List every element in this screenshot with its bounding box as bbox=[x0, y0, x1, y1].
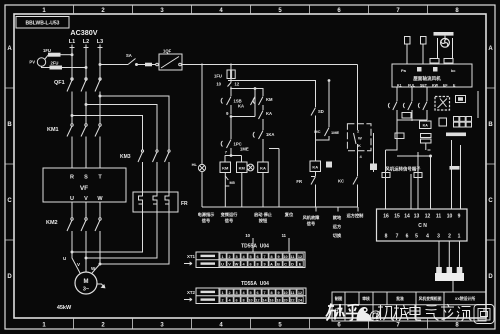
bottom margin zone ticks bbox=[74, 318, 428, 329]
watermark pseudo char 电 bbox=[410, 305, 421, 321]
terminal link plate 2 bbox=[450, 166, 460, 170]
bottom zone numbers bbox=[42, 323, 459, 329]
svg-text:10: 10 bbox=[216, 82, 221, 87]
title block texts bbox=[335, 296, 476, 313]
left zone letters bbox=[7, 46, 12, 280]
coil KA2 bbox=[310, 161, 321, 172]
svg-text:W: W bbox=[97, 196, 103, 202]
svg-text:8: 8 bbox=[242, 299, 244, 303]
svg-text:6: 6 bbox=[249, 263, 251, 267]
svg-text:13: 13 bbox=[414, 214, 420, 220]
wire phase L3 drop bbox=[99, 45, 101, 82]
svg-text:TD55A U04: TD55A U04 bbox=[241, 281, 269, 287]
svg-text:3: 3 bbox=[437, 234, 440, 240]
wire sensor drop 3 bbox=[426, 87, 428, 101]
svg-text:S: S bbox=[84, 175, 88, 181]
fan junction box bbox=[392, 64, 472, 87]
coil KA bbox=[258, 162, 269, 207]
svg-text:切换: 切换 bbox=[333, 232, 342, 239]
contact 1SD bbox=[311, 108, 324, 162]
contact K2 bbox=[403, 102, 412, 121]
svg-text:7: 7 bbox=[396, 234, 399, 240]
svg-text:KM2: KM2 bbox=[46, 220, 58, 226]
svg-text:1: 1 bbox=[42, 323, 46, 329]
thermal overload FR bbox=[133, 192, 188, 212]
svg-text:A: A bbox=[7, 46, 12, 52]
svg-text:1: 1 bbox=[221, 255, 223, 259]
label XT1 bbox=[184, 254, 196, 265]
contactor KM3 bbox=[120, 150, 170, 192]
svg-text:4: 4 bbox=[219, 323, 223, 329]
svg-text:KA: KA bbox=[423, 124, 429, 128]
svg-text:信号: 信号 bbox=[202, 217, 210, 224]
terminal tag 10 bbox=[421, 134, 432, 138]
svg-text:2: 2 bbox=[101, 8, 105, 14]
fan box internals bbox=[397, 67, 456, 88]
svg-text:1: 1 bbox=[221, 291, 223, 295]
svg-text:KM: KM bbox=[222, 166, 229, 171]
svg-text:XT1: XT1 bbox=[187, 254, 196, 259]
svg-text:15: 15 bbox=[394, 214, 400, 220]
svg-text:E: E bbox=[299, 263, 302, 267]
breaker 1QF box bbox=[156, 49, 182, 71]
svg-text:7: 7 bbox=[263, 255, 265, 259]
right margin zone ticks bbox=[486, 88, 495, 240]
svg-text:W: W bbox=[358, 136, 362, 141]
svg-text:KC: KC bbox=[338, 179, 344, 184]
svg-text:10: 10 bbox=[447, 214, 453, 220]
svg-text:MC: MC bbox=[314, 129, 320, 134]
wire tag B bbox=[414, 173, 422, 178]
fuse 1FU control bbox=[214, 65, 235, 81]
svg-text:B: B bbox=[7, 122, 12, 128]
svg-text:D: D bbox=[7, 274, 12, 280]
wire bypass tap L1 bbox=[71, 115, 143, 151]
svg-text:V: V bbox=[84, 196, 88, 202]
svg-text:审核: 审核 bbox=[362, 296, 370, 301]
svg-text:8: 8 bbox=[270, 291, 272, 295]
svg-text:QF1: QF1 bbox=[54, 80, 65, 86]
svg-text:5: 5 bbox=[278, 323, 282, 329]
contact KMC bbox=[338, 151, 358, 207]
svg-text:3: 3 bbox=[160, 323, 164, 329]
svg-text:变频运行: 变频运行 bbox=[221, 211, 239, 218]
VFD U1 box bbox=[43, 168, 126, 202]
svg-text:4: 4 bbox=[242, 291, 245, 295]
coil KA3 bbox=[420, 121, 432, 129]
svg-text:就地: 就地 bbox=[333, 214, 342, 221]
XT1 cells top bbox=[220, 253, 303, 266]
svg-text:11: 11 bbox=[282, 233, 287, 238]
svg-text:2: 2 bbox=[228, 255, 230, 259]
busbar link plate bbox=[446, 133, 466, 137]
wire tags on phases bbox=[70, 47, 103, 49]
svg-text:2: 2 bbox=[357, 129, 360, 134]
svg-text:4: 4 bbox=[219, 8, 223, 14]
svg-text:XT2: XT2 bbox=[187, 290, 196, 295]
svg-text:W: W bbox=[91, 266, 96, 271]
svg-text:kc: kc bbox=[451, 68, 456, 73]
svg-text:批准: 批准 bbox=[396, 296, 404, 301]
terminal tag 11 bbox=[421, 139, 432, 143]
svg-text:风机变频柜图: 风机变频柜图 bbox=[419, 296, 442, 301]
terminal block CN bbox=[377, 209, 468, 241]
svg-text:10: 10 bbox=[248, 299, 252, 303]
svg-text:C: C bbox=[7, 198, 12, 204]
svg-text:4: 4 bbox=[360, 154, 363, 159]
plug connector dashed bbox=[435, 97, 450, 111]
svg-text:C: C bbox=[488, 198, 493, 204]
wire busbar to title block bbox=[452, 281, 454, 292]
wire bypass to motor bbox=[71, 212, 169, 265]
svg-text:L3: L3 bbox=[97, 39, 103, 45]
svg-text:U: U bbox=[221, 263, 224, 267]
wire number 11 to strip bbox=[282, 233, 289, 252]
svg-text:1QF: 1QF bbox=[163, 49, 172, 54]
svg-text:Pa: Pa bbox=[401, 68, 407, 73]
svg-text:1: 1 bbox=[42, 8, 46, 14]
lamp 2HL bbox=[247, 164, 254, 171]
svg-text:信号: 信号 bbox=[307, 220, 315, 227]
svg-text:18: 18 bbox=[276, 299, 280, 303]
svg-text:9: 9 bbox=[458, 214, 461, 220]
wire bypass tap L2 bbox=[85, 104, 157, 151]
svg-text:V: V bbox=[228, 263, 231, 267]
svg-text:1KA: 1KA bbox=[266, 132, 274, 137]
svg-text:复位: 复位 bbox=[284, 211, 294, 218]
wire number 10 to strip bbox=[245, 233, 253, 252]
svg-text:11: 11 bbox=[290, 255, 294, 259]
svg-text:启动 停止: 启动 停止 bbox=[254, 211, 273, 218]
svg-text:FR: FR bbox=[181, 201, 188, 207]
stop button 10 bbox=[216, 81, 234, 89]
svg-text:FR: FR bbox=[296, 179, 302, 184]
wire CN output 3 bbox=[457, 241, 463, 273]
svg-text:远方控制: 远方控制 bbox=[347, 212, 364, 219]
svg-text:11: 11 bbox=[290, 291, 294, 295]
wire right feed drop bbox=[357, 65, 359, 128]
top margin zone ticks bbox=[74, 5, 428, 14]
svg-text:电源指示: 电源指示 bbox=[198, 211, 216, 218]
svg-text:16: 16 bbox=[383, 214, 389, 220]
svg-text:KM: KM bbox=[239, 166, 246, 171]
svg-text:B: B bbox=[488, 122, 493, 128]
relay tag box B bbox=[395, 133, 404, 139]
coil KA4 bbox=[439, 118, 447, 126]
svg-text:1: 1 bbox=[458, 234, 461, 240]
relay label box bbox=[456, 96, 466, 103]
svg-text:B: B bbox=[277, 263, 280, 267]
svg-text:6: 6 bbox=[256, 255, 258, 259]
wire cluster links bbox=[386, 110, 432, 157]
terminal mark bbox=[326, 162, 332, 168]
svg-text:12: 12 bbox=[298, 255, 302, 259]
top zone numbers bbox=[42, 8, 459, 14]
svg-text:6: 6 bbox=[406, 234, 409, 240]
svg-text:8: 8 bbox=[256, 263, 258, 267]
svg-text:L2: L2 bbox=[83, 39, 89, 45]
svg-text:TD55A U04: TD55A U04 bbox=[241, 244, 269, 250]
svg-text:C: C bbox=[284, 263, 287, 267]
wire ladder main drop bbox=[230, 64, 232, 66]
watermark boxed char 圈 bbox=[474, 305, 494, 324]
svg-text:L1: L1 bbox=[69, 39, 75, 45]
motor ground arrow bbox=[97, 284, 105, 288]
contact K3 bbox=[418, 102, 427, 121]
svg-text:A: A bbox=[488, 46, 493, 52]
svg-text:7: 7 bbox=[263, 291, 265, 295]
CN bottom row numbers bbox=[385, 234, 461, 240]
svg-text:@: @ bbox=[369, 309, 381, 323]
svg-text:T: T bbox=[98, 175, 102, 181]
svg-text:AC380V: AC380V bbox=[70, 28, 97, 37]
relay tag box A bbox=[402, 113, 411, 119]
contact KA2 aux bbox=[259, 111, 273, 131]
wire lamp rung bbox=[201, 65, 203, 208]
wire link row bbox=[397, 120, 427, 121]
svg-text:9: 9 bbox=[277, 291, 279, 295]
svg-text:KM3: KM3 bbox=[120, 154, 131, 160]
svg-text:1FU: 1FU bbox=[43, 48, 51, 53]
contact KM aux bbox=[253, 97, 273, 111]
svg-text:4: 4 bbox=[426, 234, 429, 240]
wire CN output 2 bbox=[447, 241, 453, 273]
watermark pseudo char 交 bbox=[441, 304, 454, 320]
svg-text:远方: 远方 bbox=[333, 223, 341, 230]
wire rung 279 bbox=[269, 149, 279, 208]
svg-text:KW: KW bbox=[432, 84, 439, 88]
svg-text:6: 6 bbox=[235, 299, 237, 303]
svg-text:3: 3 bbox=[160, 8, 164, 14]
svg-text:2: 2 bbox=[228, 291, 230, 295]
watermark zhihu char 知 bbox=[326, 304, 344, 321]
svg-text:2FU: 2FU bbox=[51, 61, 59, 66]
svg-text:12: 12 bbox=[298, 291, 302, 295]
svg-text:KA: KA bbox=[260, 166, 266, 171]
svg-text:风机运转信号端子: 风机运转信号端子 bbox=[385, 166, 421, 173]
svg-text:K1: K1 bbox=[397, 84, 402, 88]
indicator lamp HL bbox=[192, 162, 206, 172]
svg-text:屋面轴流风机: 屋面轴流风机 bbox=[413, 75, 441, 82]
svg-text:11: 11 bbox=[436, 214, 442, 220]
svg-text:FUL: FUL bbox=[408, 84, 416, 88]
svg-text:KA: KA bbox=[312, 165, 318, 170]
svg-text:U: U bbox=[70, 196, 74, 202]
voltmeter PV bbox=[29, 58, 45, 66]
drawing number title box bbox=[16, 17, 69, 29]
svg-text:16: 16 bbox=[269, 299, 273, 303]
wire tag A bbox=[382, 173, 390, 178]
svg-text:12: 12 bbox=[425, 214, 431, 220]
svg-text:1FU: 1FU bbox=[214, 74, 222, 79]
XT2 cells bbox=[220, 289, 303, 302]
svg-text:W: W bbox=[235, 263, 239, 267]
wire right edge segment bbox=[477, 91, 479, 118]
svg-text:VF: VF bbox=[80, 185, 88, 192]
CN top row numbers bbox=[383, 214, 460, 220]
wire coil branch bbox=[225, 150, 242, 163]
control bottom bus bbox=[202, 207, 358, 212]
svg-text:9: 9 bbox=[277, 255, 279, 259]
svg-text:2: 2 bbox=[221, 299, 223, 303]
wire run-signal branch bbox=[231, 81, 316, 108]
watermark pseudo char 流 bbox=[457, 307, 472, 321]
knife switch SA bbox=[126, 53, 145, 66]
contact K1 bbox=[388, 102, 397, 121]
svg-text:14: 14 bbox=[404, 214, 410, 220]
title block table bbox=[332, 292, 486, 321]
label circuit functions row1 bbox=[198, 211, 364, 221]
wire control bus bbox=[182, 64, 358, 66]
svg-text:A: A bbox=[270, 263, 273, 267]
fuse FU1 bbox=[43, 48, 73, 60]
wire sensor drop 2 bbox=[411, 87, 413, 101]
svg-text:风机故障: 风机故障 bbox=[303, 214, 321, 221]
watermark pseudo char 机 bbox=[376, 305, 394, 321]
watermark pseudo char 气 bbox=[426, 306, 439, 321]
svg-text:10: 10 bbox=[245, 233, 250, 238]
breaker QF1 bbox=[54, 78, 101, 124]
svg-text:K: K bbox=[358, 143, 361, 148]
svg-text:8: 8 bbox=[455, 8, 459, 14]
busbar plate bbox=[435, 273, 464, 281]
temperature sensor B1 bbox=[405, 37, 411, 65]
svg-text:6: 6 bbox=[337, 323, 341, 329]
svg-text:M: M bbox=[84, 279, 89, 285]
svg-text:7: 7 bbox=[396, 8, 400, 14]
svg-text:8: 8 bbox=[455, 323, 459, 329]
svg-text:SD: SD bbox=[318, 109, 324, 114]
svg-text:KM: KM bbox=[266, 97, 273, 102]
fuse FU3 bbox=[145, 63, 156, 67]
svg-text:9: 9 bbox=[226, 111, 229, 116]
svg-text:5: 5 bbox=[415, 234, 418, 240]
watermark zhihu char 乎 bbox=[346, 305, 359, 321]
XT1 cell glyphs bbox=[221, 255, 302, 267]
svg-text:制图: 制图 bbox=[335, 296, 343, 301]
temperature sensor B2 bbox=[421, 37, 427, 65]
aux contact block grid bbox=[454, 117, 472, 128]
svg-text:22: 22 bbox=[290, 299, 294, 303]
svg-text:5: 5 bbox=[278, 8, 282, 14]
terminal strip XT1 bbox=[196, 252, 305, 268]
label XT2 bbox=[184, 290, 196, 301]
svg-text:按钮: 按钮 bbox=[259, 217, 268, 224]
wire CN output 1 bbox=[436, 241, 442, 273]
svg-text:4: 4 bbox=[242, 255, 245, 259]
XT2 cell glyphs bbox=[221, 291, 303, 303]
svg-text:V: V bbox=[77, 262, 80, 267]
svg-text:9: 9 bbox=[263, 263, 265, 267]
contact FR NC bbox=[296, 172, 315, 208]
svg-text:12: 12 bbox=[255, 299, 259, 303]
motor M1 bbox=[75, 272, 97, 294]
svg-text:3: 3 bbox=[235, 291, 237, 295]
svg-text:KM1: KM1 bbox=[47, 127, 59, 133]
fan terminal lugs bbox=[430, 59, 453, 64]
svg-text:8: 8 bbox=[270, 255, 272, 259]
svg-text:PV: PV bbox=[29, 60, 35, 65]
fan impeller bbox=[438, 36, 453, 59]
svg-text:2: 2 bbox=[101, 323, 105, 329]
contact 1PC bbox=[221, 117, 249, 156]
contactor KM1 bbox=[47, 124, 101, 168]
fan mount bar bbox=[434, 32, 454, 36]
terminal strip XT2 bbox=[196, 288, 306, 304]
svg-text:12: 12 bbox=[235, 82, 240, 87]
selector switch SA2 box bbox=[347, 124, 371, 159]
wire branch to KM aux bbox=[262, 94, 264, 96]
svg-text:10: 10 bbox=[283, 255, 287, 259]
svg-text:3~: 3~ bbox=[83, 287, 89, 293]
wire phase L2 drop bbox=[85, 45, 87, 82]
coil KM (run) bbox=[220, 162, 231, 207]
svg-text:信号: 信号 bbox=[225, 217, 233, 224]
svg-text:XX院设计所: XX院设计所 bbox=[455, 296, 475, 301]
svg-text:5: 5 bbox=[249, 255, 251, 259]
svg-text:45kW: 45kW bbox=[57, 305, 72, 311]
svg-text:5: 5 bbox=[249, 291, 251, 295]
svg-text:HL: HL bbox=[192, 162, 198, 167]
svg-text:7: 7 bbox=[396, 323, 400, 329]
wire rung 373 bbox=[370, 133, 377, 172]
wire sensor drop 1 bbox=[396, 87, 398, 101]
right zone letters bbox=[488, 46, 493, 280]
wire rung 329 bbox=[314, 80, 339, 140]
svg-text:M5: M5 bbox=[230, 181, 235, 185]
wire phase L1 drop bbox=[71, 45, 73, 82]
svg-text:6: 6 bbox=[256, 291, 258, 295]
watermark goose logo bbox=[357, 307, 372, 320]
svg-text:KA: KA bbox=[238, 104, 244, 109]
svg-text:C N: C N bbox=[418, 223, 427, 229]
wire seal rung KA bbox=[238, 88, 256, 115]
wire seal branch upper bbox=[231, 89, 263, 95]
left margin zone ticks bbox=[5, 88, 14, 240]
coil KM2c bbox=[237, 162, 248, 207]
svg-text:U: U bbox=[63, 256, 66, 261]
svg-text:10: 10 bbox=[283, 291, 287, 295]
watermark pseudo char 械 bbox=[393, 305, 410, 321]
svg-text:SA: SA bbox=[126, 53, 132, 58]
contactor KM2 bbox=[46, 202, 101, 264]
wire CN feeders bbox=[386, 140, 461, 209]
svg-text:R: R bbox=[70, 175, 74, 181]
fuse FU2 bbox=[42, 61, 88, 70]
svg-text:20: 20 bbox=[283, 299, 287, 303]
svg-text:EF: EF bbox=[443, 84, 448, 88]
svg-text:3: 3 bbox=[235, 255, 237, 259]
pe link under coil bbox=[225, 176, 234, 186]
svg-text:D: D bbox=[488, 274, 493, 280]
svg-text:D: D bbox=[291, 263, 294, 267]
svg-text:1ME: 1ME bbox=[240, 147, 249, 152]
label circuit functions row2 bbox=[202, 217, 342, 239]
wire node 9 bbox=[226, 111, 255, 117]
start button 1SB bbox=[221, 89, 241, 115]
svg-text:KA: KA bbox=[266, 111, 272, 116]
svg-text:8: 8 bbox=[385, 234, 388, 240]
svg-text:SET: SET bbox=[420, 84, 428, 88]
control bus tap from L3 bbox=[99, 64, 128, 66]
svg-text:1ME: 1ME bbox=[331, 130, 340, 135]
contact 2A row bbox=[253, 131, 274, 163]
wire bypass tap L3 bbox=[99, 95, 169, 150]
svg-text:2: 2 bbox=[448, 234, 451, 240]
svg-text:BBLWB-L-U53: BBLWB-L-U53 bbox=[26, 21, 60, 27]
svg-text:6: 6 bbox=[337, 8, 341, 14]
svg-text:7: 7 bbox=[225, 150, 228, 155]
